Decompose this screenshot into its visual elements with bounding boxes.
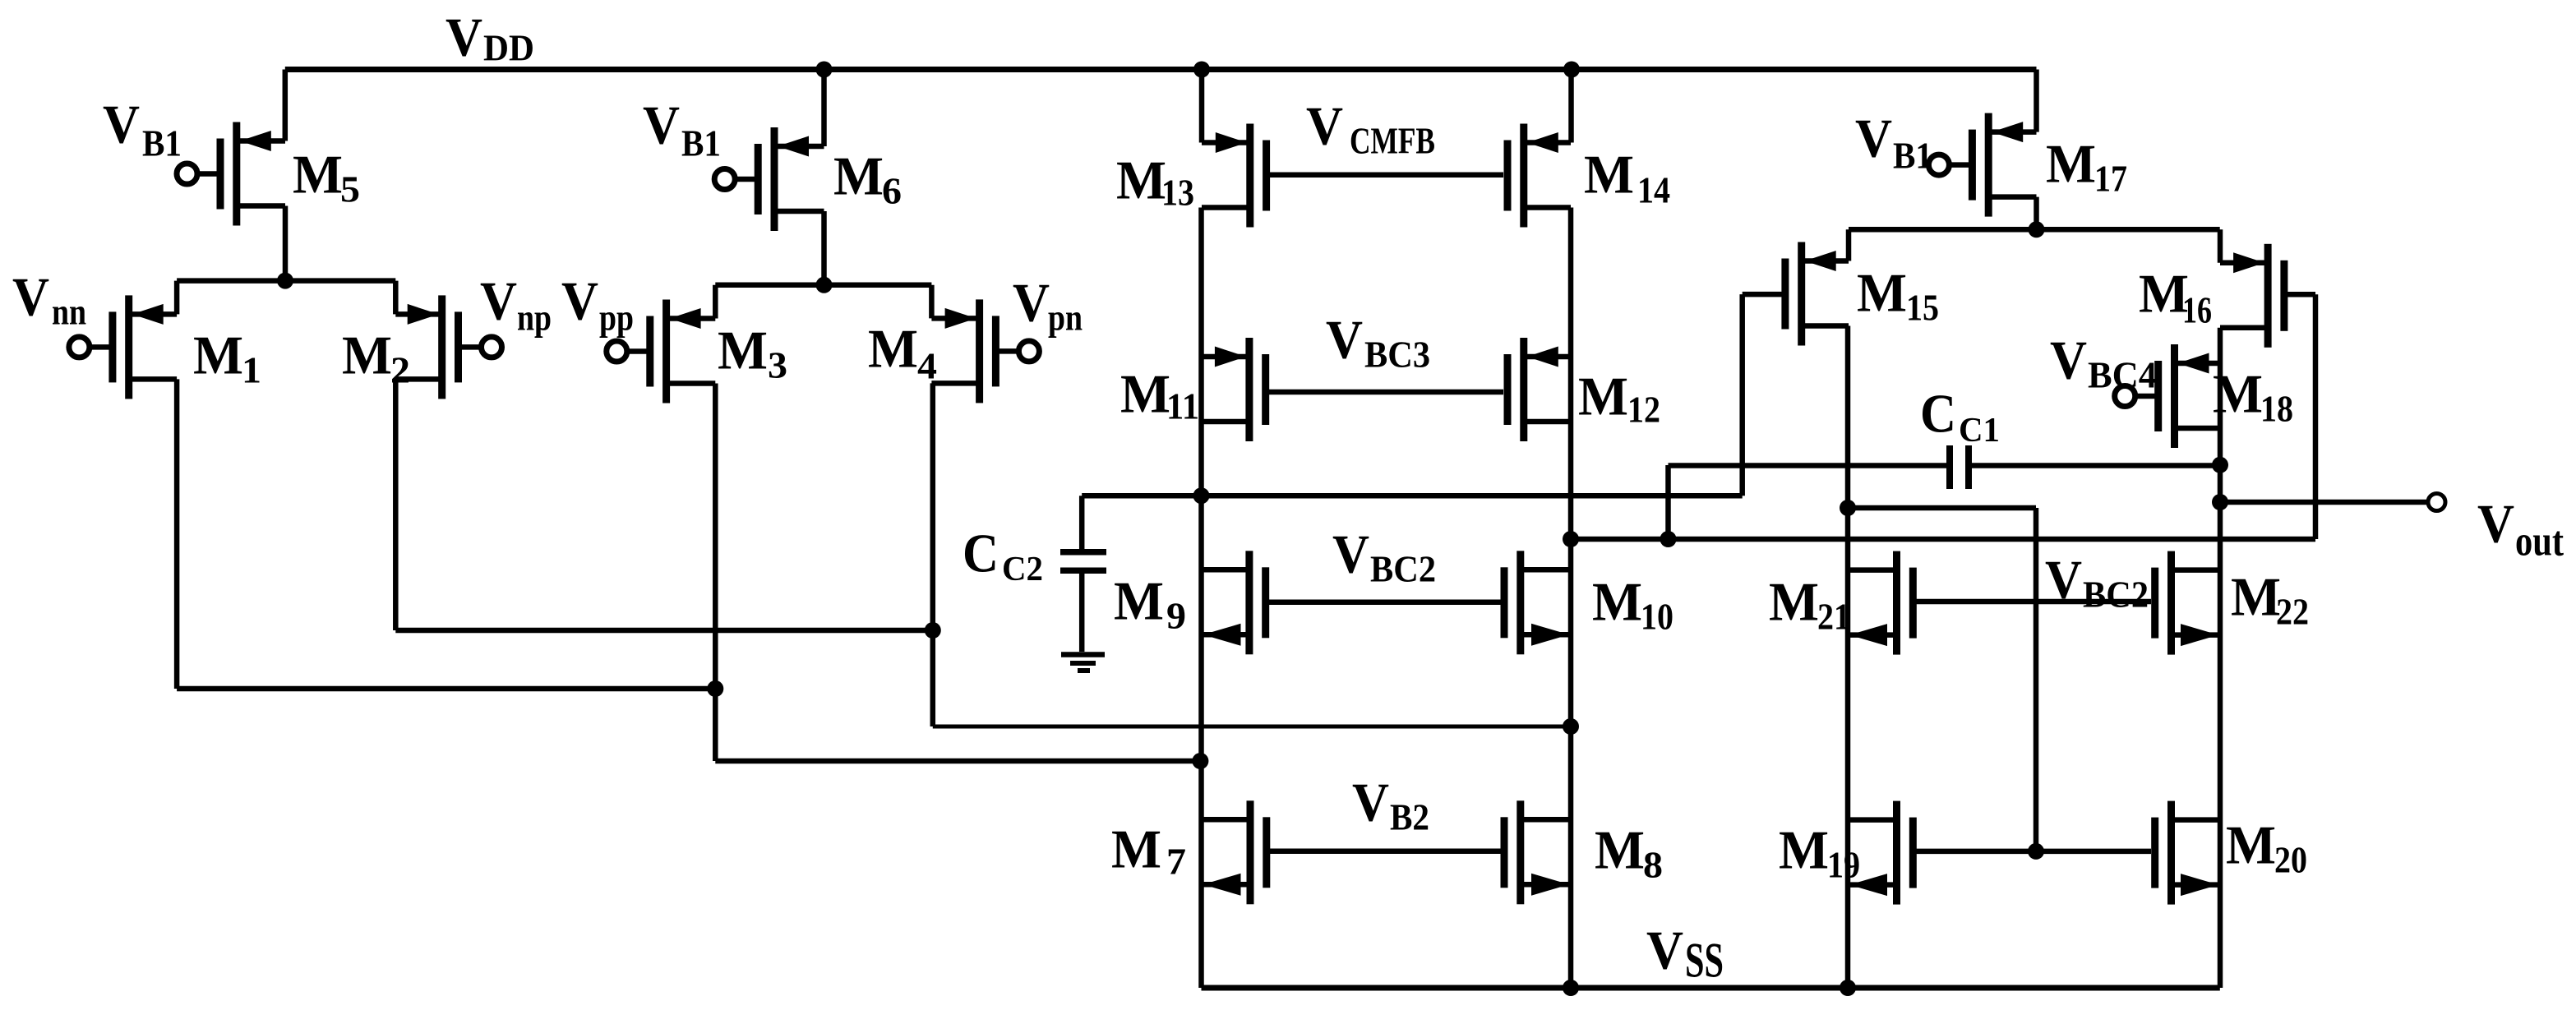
svg-text:6: 6: [882, 170, 902, 212]
svg-text:B1: B1: [681, 122, 721, 164]
svg-text:C1: C1: [1959, 412, 2000, 450]
svg-text:M: M: [2046, 133, 2096, 194]
svg-text:M: M: [1779, 819, 1829, 880]
svg-text:M: M: [2213, 363, 2263, 424]
svg-text:M: M: [2226, 814, 2276, 875]
svg-text:7: 7: [1166, 841, 1186, 883]
svg-text:V: V: [1855, 108, 1892, 168]
svg-text:DD: DD: [483, 27, 534, 69]
svg-text:M: M: [1116, 150, 1166, 210]
svg-text:15: 15: [1906, 287, 1939, 329]
svg-text:M: M: [342, 325, 392, 385]
svg-text:1: 1: [242, 349, 261, 391]
svg-text:M: M: [833, 145, 884, 206]
svg-text:V: V: [2477, 493, 2514, 554]
svg-text:V: V: [1306, 95, 1343, 156]
svg-text:10: 10: [1641, 596, 1673, 638]
svg-text:V: V: [1013, 272, 1050, 333]
svg-text:C: C: [1920, 383, 1956, 444]
svg-text:M: M: [1120, 363, 1170, 424]
svg-text:V: V: [103, 94, 140, 154]
svg-text:V: V: [2050, 330, 2087, 390]
svg-text:16: 16: [2182, 289, 2212, 331]
svg-text:M: M: [868, 318, 918, 379]
svg-text:17: 17: [2094, 158, 2127, 200]
svg-text:M: M: [2139, 263, 2189, 324]
svg-text:12: 12: [1627, 389, 1660, 431]
svg-text:SS: SS: [1685, 934, 1724, 988]
svg-text:M: M: [718, 320, 768, 380]
svg-text:22: 22: [2276, 591, 2309, 633]
svg-text:11: 11: [1166, 385, 1199, 427]
svg-text:BC4: BC4: [2088, 354, 2157, 396]
svg-text:3: 3: [768, 344, 787, 386]
svg-text:B2: B2: [1390, 796, 1429, 838]
svg-text:V: V: [1326, 309, 1363, 370]
svg-text:M: M: [1857, 262, 1907, 323]
svg-text:B1: B1: [142, 122, 182, 164]
svg-text:B1: B1: [1893, 135, 1932, 177]
svg-text:M: M: [2231, 566, 2281, 627]
svg-text:V: V: [2045, 549, 2082, 610]
svg-text:5: 5: [340, 168, 360, 210]
svg-text:V: V: [480, 270, 517, 331]
svg-text:19: 19: [1827, 844, 1860, 886]
svg-text:20: 20: [2274, 839, 2307, 881]
svg-text:pn: pn: [1048, 297, 1083, 339]
svg-text:18: 18: [2260, 388, 2293, 430]
svg-text:BC2: BC2: [1370, 548, 1436, 590]
svg-text:V: V: [1332, 523, 1369, 584]
svg-text:2: 2: [390, 349, 410, 391]
svg-text:BC3: BC3: [1364, 334, 1430, 376]
svg-text:9: 9: [1166, 595, 1186, 637]
svg-text:V: V: [1646, 920, 1683, 980]
svg-text:V: V: [1352, 772, 1389, 832]
svg-text:21: 21: [1817, 596, 1850, 638]
svg-text:np: np: [517, 297, 552, 339]
svg-text:M: M: [1111, 819, 1161, 879]
svg-text:M: M: [1592, 571, 1642, 632]
svg-text:CMFB: CMFB: [1350, 120, 1435, 162]
svg-text:8: 8: [1643, 844, 1663, 886]
svg-text:14: 14: [1637, 169, 1670, 211]
svg-text:4: 4: [917, 345, 937, 387]
svg-text:pp: pp: [599, 297, 634, 339]
svg-text:M: M: [1584, 144, 1634, 205]
svg-text:nn: nn: [52, 291, 86, 333]
svg-text:M: M: [1595, 819, 1645, 880]
svg-text:V: V: [643, 95, 680, 155]
svg-text:C2: C2: [1002, 551, 1043, 588]
svg-text:M: M: [1578, 366, 1628, 427]
svg-text:V: V: [445, 7, 482, 67]
svg-text:M: M: [1114, 570, 1164, 631]
svg-text:13: 13: [1161, 172, 1194, 214]
svg-text:BC2: BC2: [2083, 574, 2149, 616]
svg-text:V: V: [561, 270, 598, 331]
svg-text:V: V: [12, 266, 49, 327]
svg-text:M: M: [193, 325, 243, 385]
svg-text:M: M: [293, 144, 343, 205]
svg-text:M: M: [1769, 571, 1819, 632]
svg-text:C: C: [963, 523, 999, 583]
svg-text:out: out: [2515, 518, 2564, 565]
